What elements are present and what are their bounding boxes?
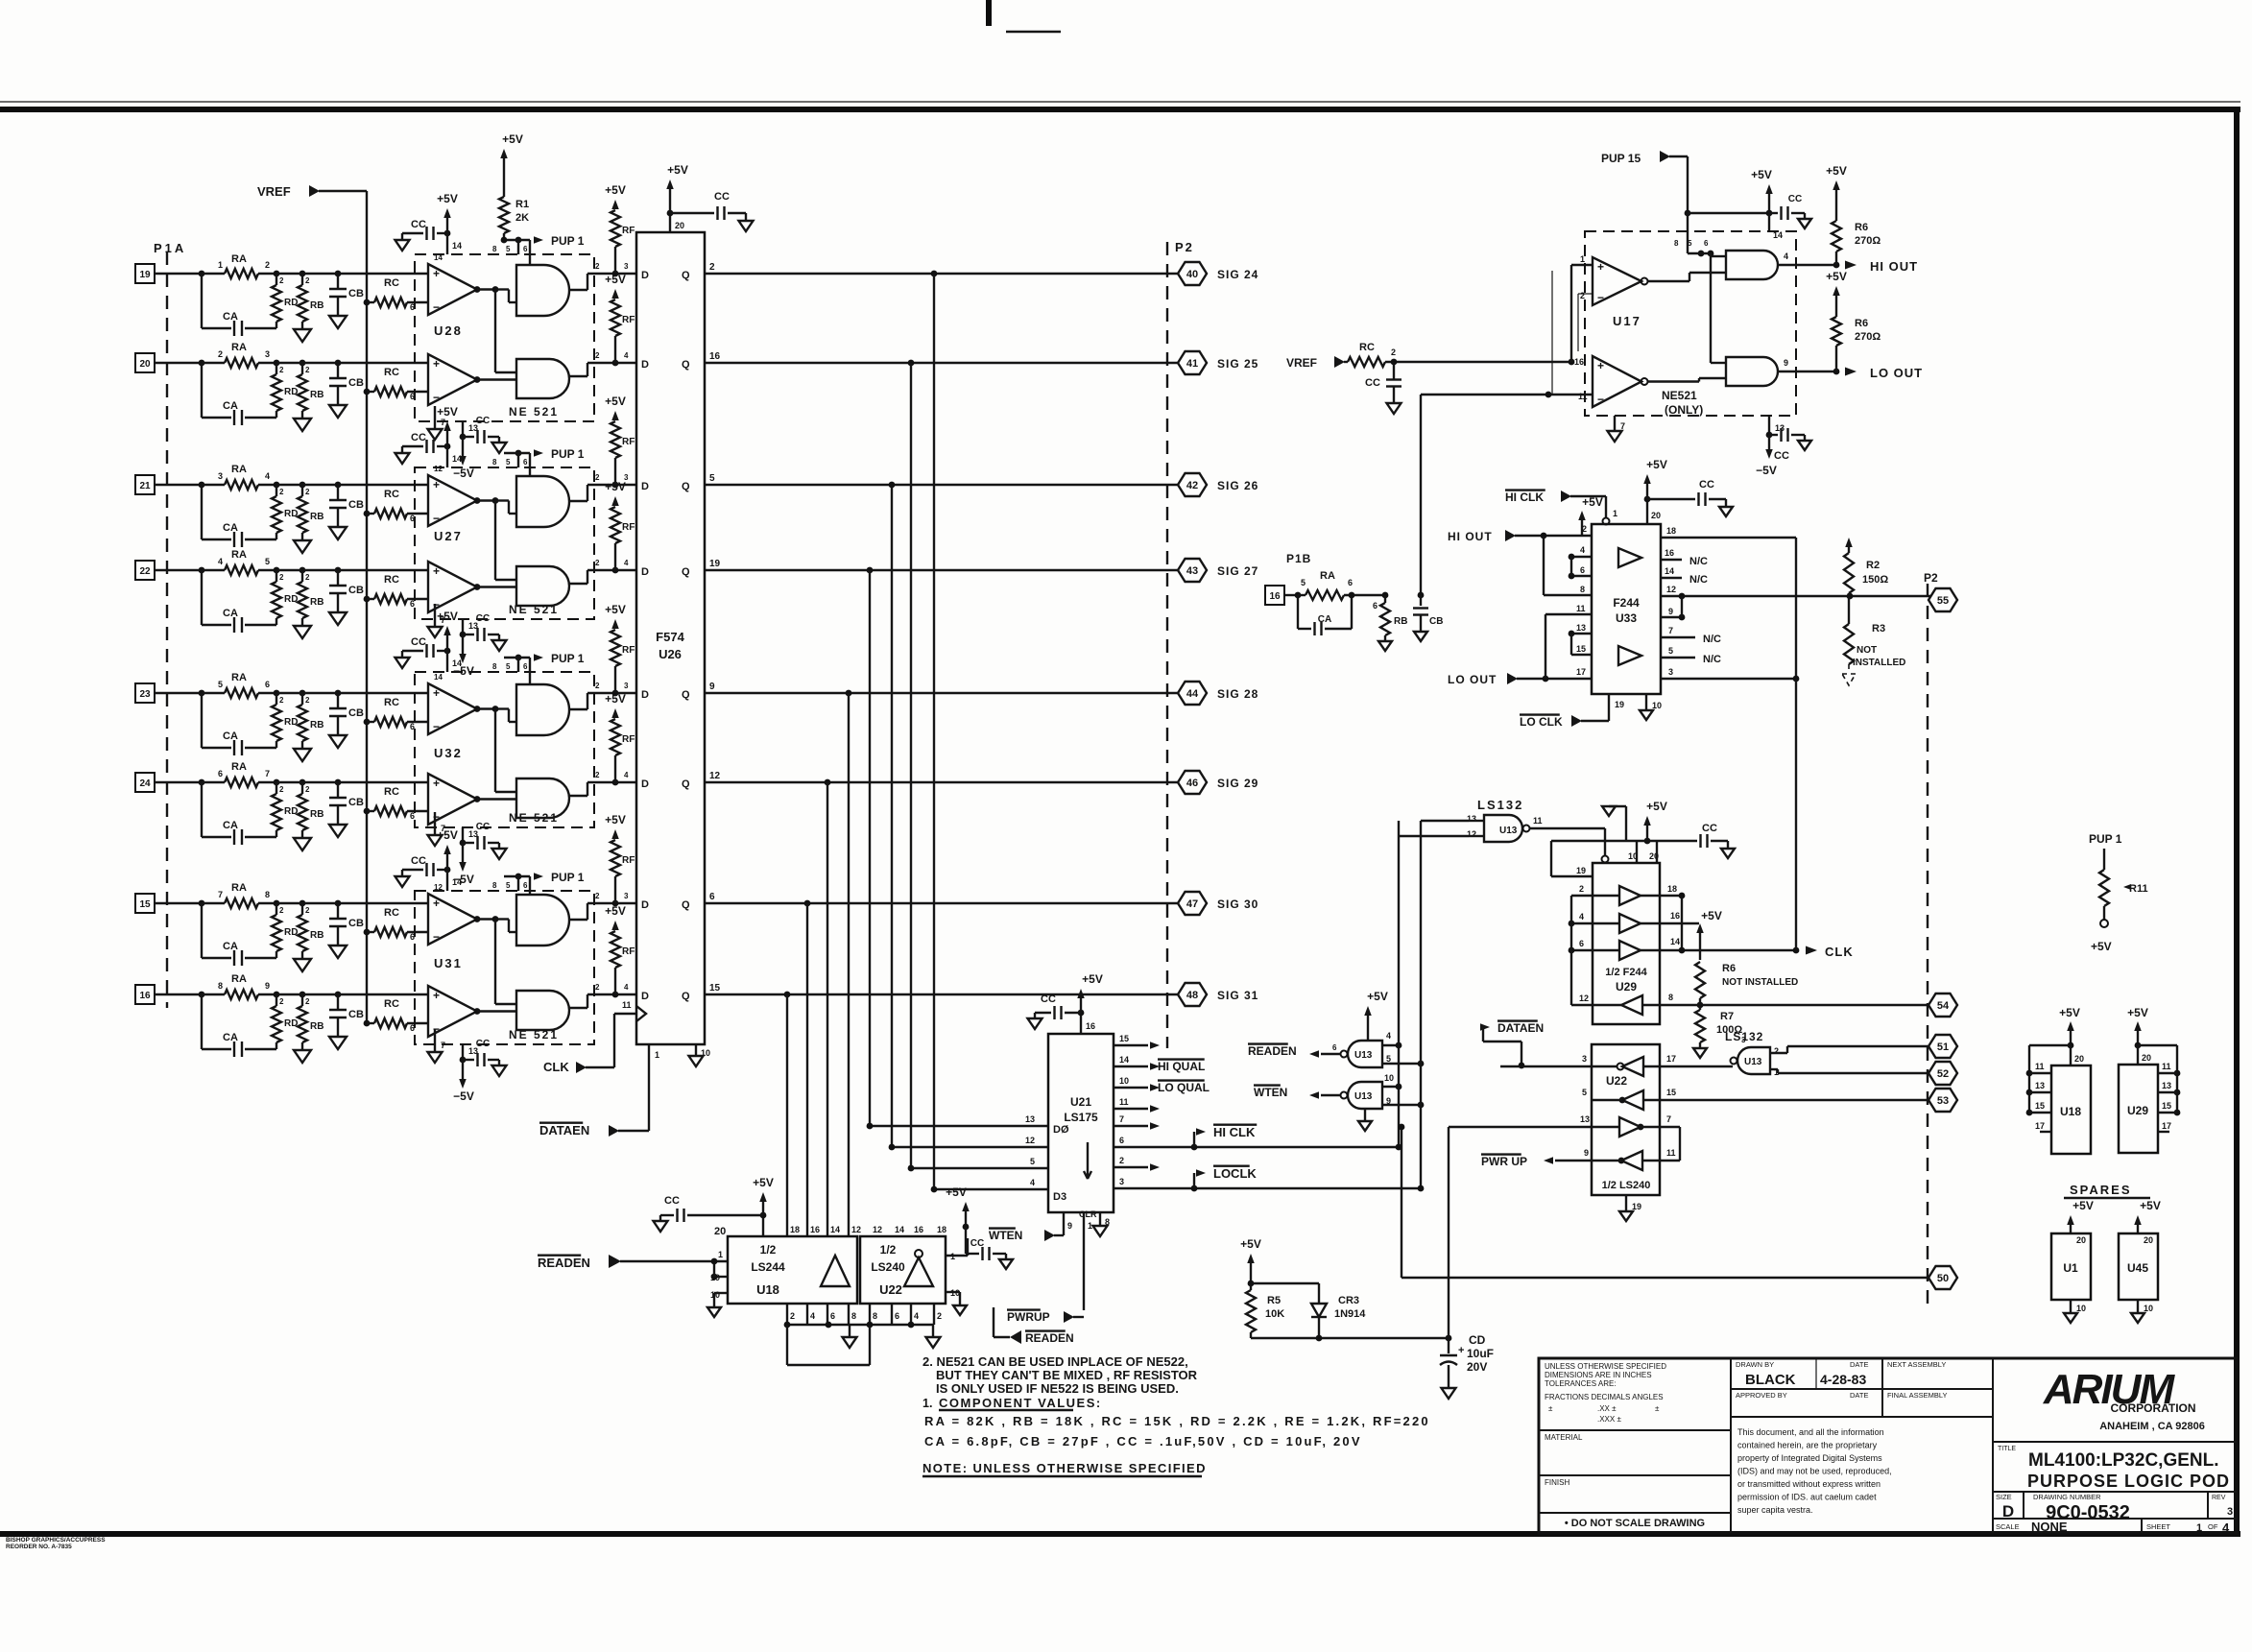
capacitor CA (P1B) bbox=[1298, 592, 1354, 635]
svg-text:6: 6 bbox=[1704, 239, 1709, 248]
svg-text:VREF: VREF bbox=[257, 184, 291, 199]
svg-text:APPROVED BY: APPROVED BY bbox=[1736, 1391, 1787, 1400]
svg-text:±: ± bbox=[1548, 1404, 1553, 1413]
wire row 6 input bbox=[155, 779, 204, 786]
svg-text:3: 3 bbox=[1668, 667, 1673, 677]
label U28 bbox=[434, 323, 463, 338]
input connector P1A pin 22 (row 4) bbox=[135, 561, 155, 580]
resistor RB (row 1) bbox=[298, 274, 323, 329]
svg-text:6: 6 bbox=[1579, 939, 1584, 948]
svg-text:RB: RB bbox=[310, 930, 323, 941]
comparator U17B bbox=[1574, 356, 1648, 407]
resistor RB (row 8) bbox=[298, 994, 323, 1050]
svg-text:18: 18 bbox=[937, 1225, 946, 1234]
comparator U32A bbox=[428, 673, 480, 734]
svg-text:D: D bbox=[641, 270, 649, 281]
svg-text:20: 20 bbox=[2144, 1235, 2153, 1245]
connector P2 pin 41 bbox=[1178, 351, 1207, 374]
svg-text:10: 10 bbox=[2076, 1304, 2086, 1313]
label 1/2 F244 U29 bbox=[1605, 967, 1647, 994]
svg-text:+: + bbox=[433, 897, 440, 910]
svg-text:24: 24 bbox=[139, 778, 151, 789]
label U18 spare bbox=[2060, 1105, 2081, 1118]
pin 14 top (U22) bbox=[895, 1225, 904, 1234]
svg-text:2: 2 bbox=[790, 1311, 795, 1321]
svg-text:PURPOSE LOGIC POD: PURPOSE LOGIC POD bbox=[2027, 1472, 2230, 1491]
comparator U32B bbox=[428, 774, 480, 825]
svg-text:BUT THEY CAN'T BE MIXED , RF R: BUT THEY CAN'T BE MIXED , RF RESISTOR bbox=[936, 1368, 1198, 1382]
svg-text:2: 2 bbox=[218, 349, 223, 359]
svg-text:Q: Q bbox=[682, 566, 690, 578]
capacitor CA (row 6) bbox=[202, 782, 276, 845]
svg-text:−: − bbox=[1597, 291, 1604, 304]
svg-text:12: 12 bbox=[434, 883, 443, 892]
P2 dashed line (left) bbox=[1166, 242, 1168, 1048]
svg-text:REV: REV bbox=[2212, 1495, 2226, 1501]
svg-text:4: 4 bbox=[1386, 1031, 1391, 1041]
svg-text:D: D bbox=[641, 359, 649, 371]
wire comparator outputs U28 bbox=[477, 286, 516, 379]
svg-text:SIG 24: SIG 24 bbox=[1217, 268, 1258, 281]
power +5V (R6 pullup) bbox=[1696, 909, 1722, 960]
svg-text:PUP 1: PUP 1 bbox=[2089, 832, 2122, 846]
capacitor CB (row 6) bbox=[329, 782, 364, 825]
svg-text:READEN: READEN bbox=[1248, 1044, 1297, 1058]
pin 6 bottom (U22) bbox=[892, 1304, 899, 1325]
label NE521 (U31) bbox=[509, 1028, 559, 1041]
resistor RB (row 3) bbox=[298, 485, 323, 540]
svg-text:21: 21 bbox=[139, 481, 151, 491]
svg-text:2: 2 bbox=[279, 276, 284, 285]
svg-text:1: 1 bbox=[718, 1250, 723, 1259]
svg-text:8: 8 bbox=[492, 881, 497, 890]
svg-text:P1A: P1A bbox=[154, 241, 186, 255]
wire CLK input bbox=[543, 1014, 636, 1074]
svg-text:CC: CC bbox=[476, 1039, 490, 1049]
svg-text:2: 2 bbox=[1580, 291, 1585, 300]
svg-text:13: 13 bbox=[1580, 1114, 1590, 1124]
resistor RB (P1B) bbox=[1373, 592, 1407, 651]
svg-text:DATE: DATE bbox=[1850, 1391, 1868, 1400]
svg-text:R2: R2 bbox=[1866, 560, 1880, 571]
svg-text:R6: R6 bbox=[1722, 963, 1736, 974]
svg-text:44: 44 bbox=[1186, 688, 1199, 700]
svg-text:19: 19 bbox=[139, 270, 151, 280]
IC U18 spare box bbox=[2051, 1065, 2091, 1154]
svg-text:+5V: +5V bbox=[605, 603, 626, 616]
svg-text:P2: P2 bbox=[1924, 571, 1938, 585]
pin 10 ground (U18) bbox=[707, 1290, 728, 1317]
svg-text:+5V: +5V bbox=[605, 273, 626, 286]
P1A dashed boundary bbox=[166, 251, 168, 1008]
svg-text:N/C: N/C bbox=[1703, 634, 1721, 645]
svg-text:2: 2 bbox=[279, 785, 284, 794]
resistor RB (row 5) bbox=[298, 693, 323, 749]
pin Q5 row 3 (U26) bbox=[682, 473, 715, 492]
connector P1A label bbox=[154, 241, 186, 255]
power +5V (U29 spare) bbox=[2127, 1006, 2148, 1048]
wire comparator outputs U27 bbox=[477, 497, 516, 587]
svg-text:PUP 1: PUP 1 bbox=[551, 652, 585, 665]
svg-text:CA: CA bbox=[223, 311, 238, 323]
svg-text:CB: CB bbox=[348, 288, 364, 299]
resistor RA (row 6) bbox=[202, 761, 276, 787]
svg-text:2: 2 bbox=[595, 771, 600, 779]
svg-text:1: 1 bbox=[218, 260, 223, 270]
resistor RA (row 5) bbox=[202, 672, 276, 698]
svg-text:1/2 LS240: 1/2 LS240 bbox=[1602, 1180, 1651, 1191]
ground U17 pin 7 bbox=[1608, 416, 1626, 442]
svg-text:20: 20 bbox=[2076, 1235, 2086, 1245]
pin D row 6 (U26) bbox=[641, 778, 649, 790]
svg-text:CC: CC bbox=[1774, 450, 1789, 462]
wire gate output to D (row 6) bbox=[569, 771, 636, 796]
svg-text:7: 7 bbox=[265, 769, 270, 778]
svg-text:6: 6 bbox=[1580, 565, 1585, 575]
NAND gate U13 (hex51/52) bbox=[1731, 1036, 1780, 1077]
svg-text:1: 1 bbox=[2196, 1522, 2202, 1534]
svg-text:LS175: LS175 bbox=[1064, 1111, 1098, 1124]
wire row 7 input bbox=[155, 900, 204, 907]
wire LO OUT input (U33 pin 17) bbox=[1448, 614, 1592, 686]
svg-text:U29: U29 bbox=[1616, 980, 1637, 994]
ground U32 pin 7 bbox=[428, 812, 446, 846]
resistor RA (row 8) bbox=[202, 973, 276, 999]
capacitor CB (P1B) bbox=[1413, 592, 1443, 641]
svg-text:4: 4 bbox=[218, 557, 223, 566]
buffer 2 (U29) bbox=[1569, 911, 1699, 933]
net label SIG 27 bbox=[1217, 564, 1258, 578]
svg-text:8: 8 bbox=[1580, 585, 1585, 594]
svg-text:Q: Q bbox=[682, 481, 690, 492]
pin 5 N/C (U33) bbox=[1661, 646, 1721, 665]
svg-text:11: 11 bbox=[1576, 604, 1586, 613]
note 2 text bbox=[922, 1354, 1198, 1396]
wire gate output to D (row 3) bbox=[569, 473, 636, 501]
svg-text:D3: D3 bbox=[1053, 1191, 1066, 1203]
svg-text:4: 4 bbox=[265, 471, 270, 481]
svg-text:10: 10 bbox=[1628, 851, 1638, 861]
svg-text:NOTE: UNLESS OTHERWISE SPECIFI: NOTE: UNLESS OTHERWISE SPECIFIED bbox=[922, 1461, 1207, 1475]
svg-text:LO OUT: LO OUT bbox=[1870, 366, 1923, 380]
pin D row 4 (U26) bbox=[641, 566, 649, 578]
connector P2 pin 52 bbox=[1929, 1062, 1957, 1085]
power +5V U21 pin 16 bbox=[1077, 972, 1103, 1034]
wire gate output to D (row 1) bbox=[569, 262, 636, 290]
resistor RD (row 5) bbox=[272, 693, 298, 748]
net LO CLK input bbox=[1520, 694, 1624, 729]
capacitor CC (U21) bbox=[1028, 994, 1082, 1029]
IC U1 spare box bbox=[2051, 1233, 2091, 1300]
svg-text:9: 9 bbox=[1067, 1221, 1072, 1231]
resistor RC (row 8) bbox=[364, 998, 428, 1033]
svg-text:7: 7 bbox=[1666, 1114, 1671, 1124]
resistor RD (row 7) bbox=[272, 903, 298, 958]
svg-text:PUP 1: PUP 1 bbox=[551, 447, 585, 461]
wire comparator outputs U32 bbox=[477, 706, 516, 799]
svg-text:RD: RD bbox=[284, 717, 298, 728]
pin 8 bottom (U18) bbox=[849, 1304, 856, 1325]
pin 10 ground (U26) bbox=[689, 1044, 711, 1066]
svg-text:+5V: +5V bbox=[437, 192, 458, 205]
resistor RD (row 1) bbox=[272, 274, 298, 328]
buffer 1 (U29) bbox=[1571, 884, 1685, 905]
resistor RC (row 7) bbox=[364, 907, 428, 942]
net PUP 15 bbox=[1601, 151, 1769, 256]
resistor RD (row 4) bbox=[272, 570, 298, 625]
label F574 U26 bbox=[656, 630, 684, 661]
wire R5/CR3 bottom rail bbox=[1251, 1335, 1451, 1342]
resistor RB (row 4) bbox=[298, 570, 323, 626]
power +5V U18 pin 20 bbox=[714, 1176, 774, 1237]
svg-text:+5V: +5V bbox=[2072, 1199, 2094, 1212]
svg-text:NE521: NE521 bbox=[1662, 389, 1697, 402]
connector P2 pin 55 bbox=[1924, 571, 1957, 611]
resistor R1 2K bbox=[499, 132, 529, 243]
svg-text:U22: U22 bbox=[879, 1282, 902, 1297]
ground below RB (row 4) bbox=[294, 626, 311, 638]
comparator U31B bbox=[428, 986, 480, 1037]
pin Q15 row 8 (U26) bbox=[682, 983, 721, 1002]
svg-text:6: 6 bbox=[523, 881, 528, 890]
connector P2 pin 43 bbox=[1178, 559, 1207, 582]
svg-text:U45: U45 bbox=[2127, 1261, 2148, 1275]
svg-text:+5V: +5V bbox=[667, 163, 688, 177]
svg-text:15: 15 bbox=[1119, 1034, 1129, 1043]
svg-text:DIMENSIONS ARE IN INCHES: DIMENSIONS ARE IN INCHES bbox=[1545, 1371, 1652, 1379]
svg-text:U13: U13 bbox=[1499, 826, 1518, 836]
pin Q7 (U21) bbox=[1114, 1114, 1160, 1130]
svg-text:12: 12 bbox=[1579, 994, 1589, 1003]
resistor RC (row 3) bbox=[364, 489, 428, 523]
svg-text:41: 41 bbox=[1186, 358, 1198, 370]
svg-text:7: 7 bbox=[441, 1041, 445, 1050]
svg-text:BLACK: BLACK bbox=[1745, 1372, 1796, 1388]
svg-text:SPARES: SPARES bbox=[2070, 1183, 2132, 1197]
resistor RA (row 1) bbox=[202, 253, 276, 278]
input connector P1A pin 21 (row 3) bbox=[135, 475, 155, 494]
svg-text:−5V: −5V bbox=[453, 467, 474, 480]
resistor RB (row 6) bbox=[298, 782, 323, 838]
svg-text:RA: RA bbox=[231, 882, 247, 894]
resistor RF (row 6) bbox=[605, 692, 635, 782]
svg-text:CLK: CLK bbox=[543, 1060, 569, 1074]
svg-text:R11: R11 bbox=[2129, 883, 2148, 895]
svg-text:RF: RF bbox=[622, 855, 635, 866]
power +5V (U1 spare) bbox=[2067, 1199, 2094, 1233]
power +5V (U27 pin 14) bbox=[437, 405, 462, 467]
connector P2 pin 51 bbox=[1929, 1035, 1957, 1058]
svg-text:CC: CC bbox=[476, 822, 490, 832]
svg-text:16: 16 bbox=[709, 351, 721, 362]
svg-text:Q: Q bbox=[682, 899, 690, 911]
svg-text:3: 3 bbox=[1741, 1036, 1746, 1044]
svg-text:U13: U13 bbox=[1354, 1050, 1373, 1061]
svg-text:RA: RA bbox=[231, 973, 247, 985]
IC U22 1/2 LS240 box (right) bbox=[1592, 1044, 1660, 1195]
svg-text:14: 14 bbox=[434, 673, 443, 682]
svg-text:HI CLK: HI CLK bbox=[1213, 1125, 1256, 1139]
NAND gate U13 (READEN) bbox=[1332, 1031, 1391, 1067]
svg-text:13: 13 bbox=[2035, 1081, 2045, 1090]
resistor R11 bbox=[2091, 870, 2148, 953]
svg-text:SIG 25: SIG 25 bbox=[1217, 357, 1258, 371]
svg-text:5: 5 bbox=[506, 245, 511, 253]
inverting buffer 4 (U29) bbox=[1571, 993, 1673, 1015]
pin 12 to P2-55 (U33) bbox=[1661, 585, 1929, 599]
net READEN (right) bbox=[1248, 1044, 1340, 1058]
svg-text:LO QUAL: LO QUAL bbox=[1158, 1081, 1210, 1094]
connector P2 pin 42 bbox=[1178, 473, 1207, 496]
capacitor CC (VREF filter) bbox=[1365, 362, 1402, 414]
svg-text:RF: RF bbox=[622, 645, 635, 656]
resistor R6 NOT INSTALLED bbox=[1695, 962, 1798, 1008]
wire row 1 input bbox=[155, 271, 204, 277]
svg-text:5: 5 bbox=[506, 881, 511, 890]
svg-text:6: 6 bbox=[1373, 601, 1378, 611]
svg-text:16: 16 bbox=[1665, 548, 1674, 558]
svg-text:R7: R7 bbox=[1720, 1011, 1734, 1022]
wire row 4 input bbox=[155, 567, 204, 574]
svg-text:13: 13 bbox=[1576, 623, 1586, 633]
wires U18 spare pins bbox=[2026, 1045, 2084, 1132]
svg-text:RF: RF bbox=[622, 226, 635, 236]
svg-text:3: 3 bbox=[624, 892, 629, 900]
capacitor CC (U29) bbox=[1647, 823, 1735, 858]
svg-text:FINAL ASSEMBLY: FINAL ASSEMBLY bbox=[1887, 1391, 1948, 1400]
svg-text:RB: RB bbox=[310, 300, 323, 311]
svg-text:CLK: CLK bbox=[1825, 945, 1854, 959]
svg-text:CB: CB bbox=[348, 797, 364, 808]
svg-text:7: 7 bbox=[441, 418, 445, 427]
svg-text:11: 11 bbox=[622, 1000, 632, 1010]
svg-text:F244: F244 bbox=[1613, 596, 1640, 610]
svg-text:+5V: +5V bbox=[605, 480, 626, 493]
title block title cell bbox=[1993, 1442, 2237, 1491]
capacitor CC (U26) bbox=[670, 191, 754, 231]
wire Q row 3 to P2 bbox=[705, 482, 1178, 489]
ground below CB (row 6) bbox=[329, 825, 347, 837]
svg-text:PUP 1: PUP 1 bbox=[551, 234, 585, 248]
svg-text:−: − bbox=[1597, 393, 1604, 406]
svg-text:6: 6 bbox=[895, 1311, 899, 1321]
svg-text:20: 20 bbox=[2142, 1053, 2151, 1063]
capacitor CB (row 8) bbox=[329, 994, 364, 1037]
svg-text:14: 14 bbox=[452, 454, 462, 464]
svg-text:2: 2 bbox=[1579, 884, 1584, 894]
svg-text:RC: RC bbox=[384, 574, 399, 586]
svg-text:NEXT ASSEMBLY: NEXT ASSEMBLY bbox=[1887, 1360, 1946, 1369]
svg-text:CORPORATION: CORPORATION bbox=[2110, 1401, 2195, 1415]
wire riser pin18 (U29) bbox=[1679, 896, 1686, 953]
IC U18 1/2 LS244 box bbox=[728, 1236, 857, 1304]
svg-text:HI CLK: HI CLK bbox=[1505, 491, 1544, 504]
pin Q2 (U21) bbox=[1114, 1156, 1160, 1171]
comparator U28B bbox=[428, 354, 480, 405]
border frame bottom bbox=[0, 1531, 2240, 1537]
pin D row 1 (U26) bbox=[641, 270, 649, 281]
inverting buffer 17-3 (U22) bbox=[1582, 1054, 1676, 1076]
wire loop-back rail bbox=[787, 1325, 870, 1365]
AND gate U31B bbox=[516, 991, 569, 1030]
svg-text:Q: Q bbox=[682, 778, 690, 790]
svg-text:RD: RD bbox=[284, 298, 298, 308]
svg-text:CA: CA bbox=[223, 400, 238, 412]
svg-text:LS240: LS240 bbox=[871, 1260, 905, 1274]
svg-text:CC: CC bbox=[970, 1238, 984, 1249]
capacitor CB (row 3) bbox=[329, 485, 364, 527]
power +5V pull-up (pin 2) bbox=[1578, 495, 1603, 536]
wire D1 input (U21 pin 12) bbox=[889, 1136, 1048, 1150]
svg-text:RB: RB bbox=[310, 512, 323, 522]
svg-text:8: 8 bbox=[1668, 993, 1673, 1002]
svg-text:2: 2 bbox=[305, 785, 310, 794]
wire D3 input (U21 pin 4) bbox=[931, 1178, 1048, 1192]
svg-text:+5V: +5V bbox=[753, 1176, 774, 1189]
svg-text:CB: CB bbox=[348, 499, 364, 511]
svg-text:8: 8 bbox=[1674, 239, 1679, 248]
svg-text:5: 5 bbox=[1668, 646, 1673, 656]
svg-text:RA = 82K , RB = 18K , RC = 15K: RA = 82K , RB = 18K , RC = 15K , RD = 2.… bbox=[924, 1414, 1430, 1428]
svg-text:RD: RD bbox=[284, 1018, 298, 1029]
label LS132 (right) bbox=[1725, 1030, 1763, 1043]
svg-text:2: 2 bbox=[279, 573, 284, 582]
svg-text:8: 8 bbox=[492, 662, 497, 671]
IC U33 F244 box bbox=[1592, 524, 1661, 694]
connector P1B label bbox=[1286, 552, 1311, 565]
svg-text:U18: U18 bbox=[2060, 1105, 2081, 1118]
svg-text:RB: RB bbox=[310, 1021, 323, 1032]
capacitor CB (row 2) bbox=[329, 363, 364, 405]
pin 18 top (U22) bbox=[937, 1225, 946, 1234]
wire U22 pin3 output bbox=[1500, 1065, 1592, 1067]
pin D row 8 (U26) bbox=[641, 991, 649, 1002]
label U27 bbox=[434, 529, 463, 543]
net label SIG 25 bbox=[1217, 357, 1258, 371]
power +5V / capacitor CC near WTEN bbox=[946, 1185, 1013, 1269]
wire Q row 1 to P2 bbox=[705, 271, 1178, 277]
svg-text:CC: CC bbox=[411, 855, 426, 867]
svg-text:property of Integrated Digital: property of Integrated Digital Systems bbox=[1737, 1453, 1882, 1463]
pin D row 2 (U26) bbox=[641, 359, 649, 371]
pin Q16 row 2 (U26) bbox=[682, 351, 721, 371]
pin 7 N/C (U33) bbox=[1661, 626, 1721, 645]
svg-text:2: 2 bbox=[1119, 1156, 1124, 1165]
svg-text:2: 2 bbox=[595, 892, 600, 900]
svg-text:5: 5 bbox=[709, 473, 715, 484]
svg-text:BISHOP GRAPHICS/ACCUPRESS: BISHOP GRAPHICS/ACCUPRESS bbox=[6, 1537, 106, 1544]
svg-text:NE 521: NE 521 bbox=[509, 405, 559, 419]
net label SIG 30 bbox=[1217, 898, 1258, 911]
capacitor CD 10uF 20V bbox=[1440, 1333, 1494, 1399]
svg-text:2: 2 bbox=[279, 488, 284, 496]
svg-text:6: 6 bbox=[709, 892, 715, 902]
pin 12 top (U18) bbox=[851, 1225, 861, 1234]
wire tap row 6 down bbox=[827, 782, 828, 1236]
wire Q row 8 to P2 bbox=[705, 992, 1178, 998]
ground below CB (row 1) bbox=[329, 316, 347, 328]
svg-text:SCALE: SCALE bbox=[1996, 1522, 2020, 1531]
net label SIG 26 bbox=[1217, 479, 1258, 492]
svg-text:3: 3 bbox=[624, 682, 629, 690]
capacitor CA (row 8) bbox=[202, 994, 276, 1057]
label NE521 (U28) bbox=[509, 405, 559, 419]
pin 10 (U22) ground bbox=[946, 1288, 967, 1315]
wire row 3 junctions bbox=[274, 482, 428, 489]
svg-text:42: 42 bbox=[1186, 480, 1198, 491]
ground below CB (row 8) bbox=[329, 1037, 347, 1049]
resistor RC (row 4) bbox=[364, 574, 428, 609]
